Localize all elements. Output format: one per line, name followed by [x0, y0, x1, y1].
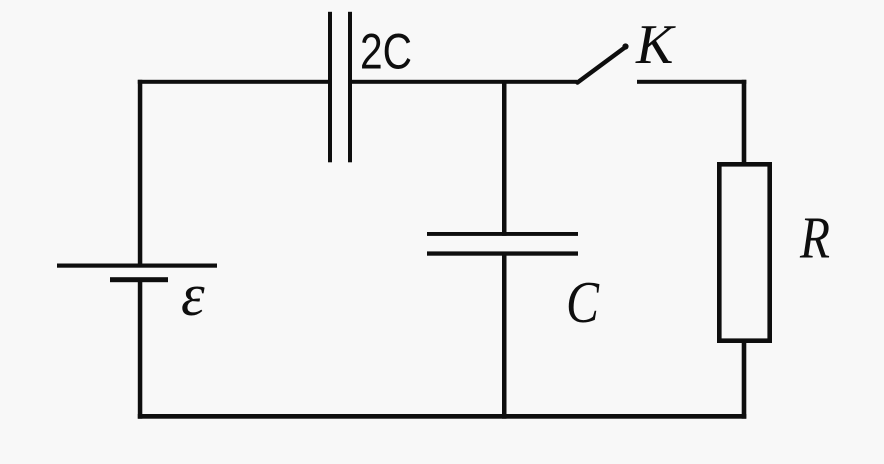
- switch K blade: [578, 47, 626, 83]
- wire top-left segment (node A to capacitor 2C left plate): [138, 80, 331, 84]
- capacitor 2C right plate: [348, 12, 352, 163]
- svg-text:C: C: [566, 269, 600, 335]
- battery long plate (positive terminal): [57, 264, 217, 268]
- resistor R body: [719, 164, 769, 340]
- svg-text:R: R: [799, 205, 830, 271]
- wire top-right segment (switch to node C, top-right corner): [637, 80, 746, 84]
- battery short plate (negative terminal): [110, 277, 168, 282]
- wire bottom segment (bottom-right corner to bottom-left corner, through node D): [138, 414, 747, 419]
- capacitor C bottom plate: [427, 251, 578, 255]
- wire right upper segment (top-right corner to resistor R): [742, 80, 747, 164]
- svg-text:2C: 2C: [360, 24, 412, 80]
- svg-text:ε: ε: [181, 262, 205, 328]
- wire left upper segment (node A down to battery): [138, 80, 143, 267]
- wire middle upper segment (node B down to capacitor C): [502, 83, 507, 236]
- wire left lower segment (battery to bottom-left corner): [138, 282, 143, 419]
- capacitor 2C left plate: [328, 12, 332, 163]
- capacitor C top plate: [427, 232, 578, 236]
- wire top-middle segment (2C right plate to switch, through node B): [350, 80, 577, 84]
- wire right lower segment (resistor R to bottom-right corner): [742, 341, 747, 419]
- svg-text:K: K: [635, 14, 676, 76]
- switch K hinge dot: [622, 43, 628, 49]
- wire middle lower segment (capacitor C to node D on bottom wire): [502, 252, 507, 419]
